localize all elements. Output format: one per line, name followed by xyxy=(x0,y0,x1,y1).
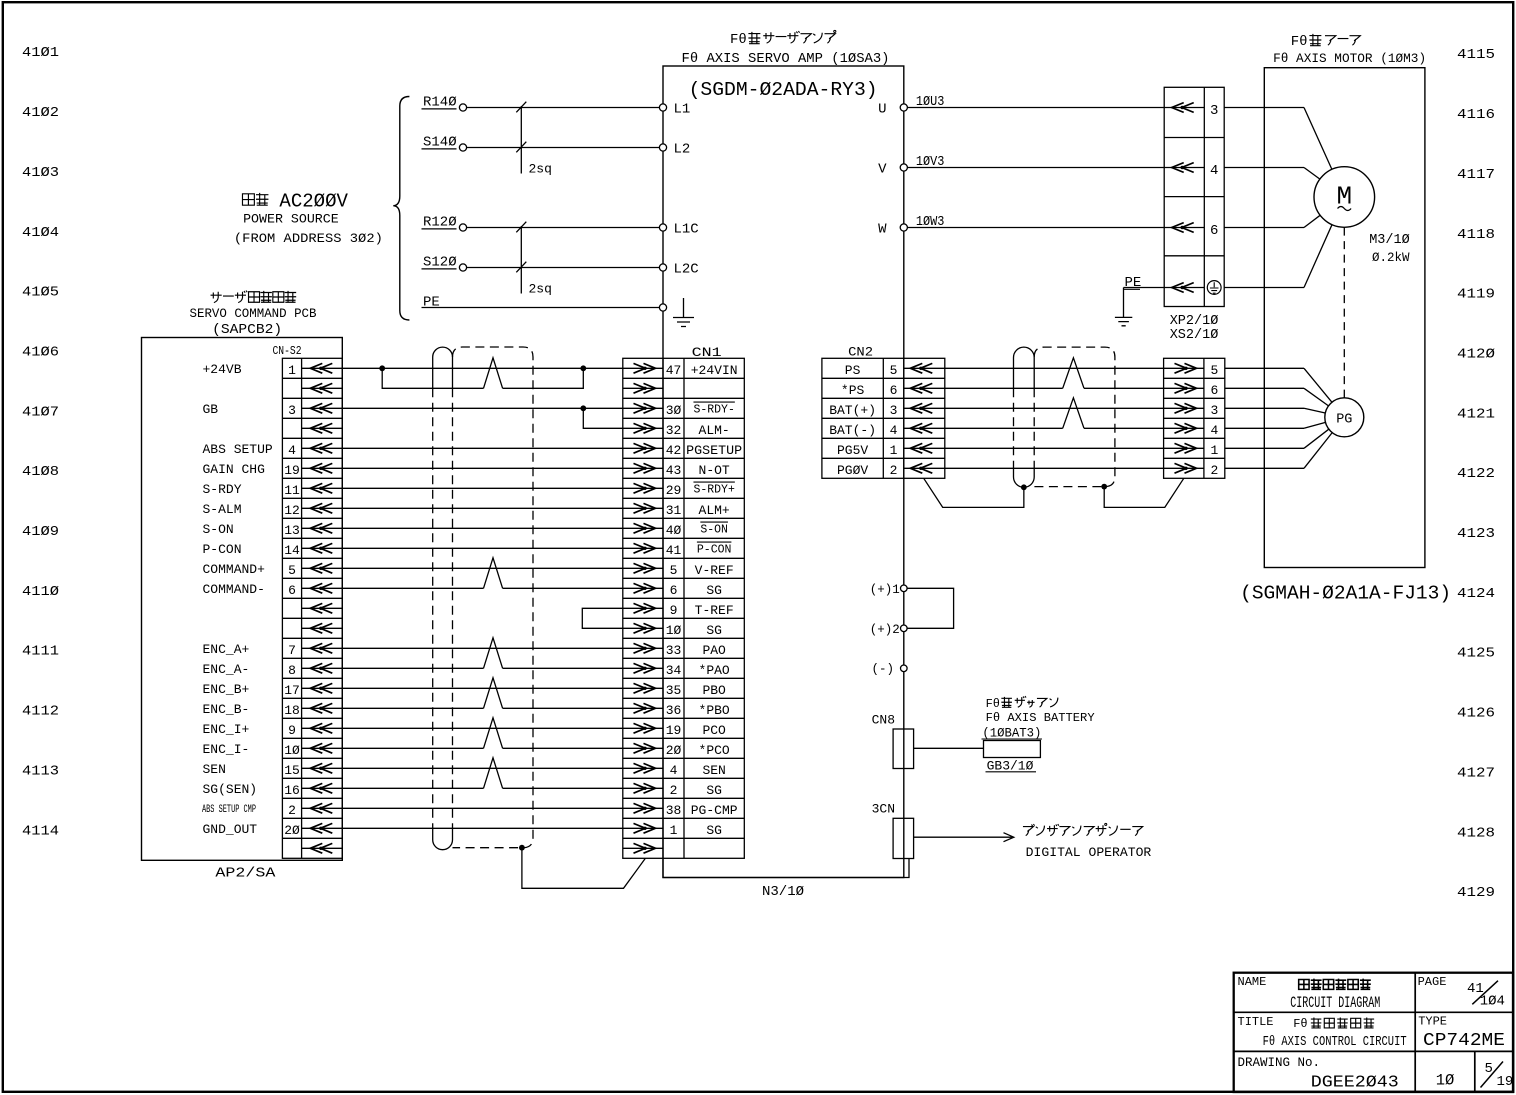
terminal L2 on servo amp xyxy=(659,144,666,151)
svg-text:PE: PE xyxy=(1125,275,1142,291)
svg-text:R12Ø: R12Ø xyxy=(423,215,457,231)
GB branch wire to ALM- with junction xyxy=(580,405,622,428)
svg-text:COMMAND+: COMMAND+ xyxy=(203,562,266,577)
ground symbol inside amp (PE) xyxy=(673,298,694,327)
arrow contact CN-S2 xyxy=(302,587,343,589)
arrow contact CN-S2 xyxy=(302,767,343,769)
svg-text:+24VIN: +24VIN xyxy=(691,363,738,378)
svg-text:S-ON: S-ON xyxy=(700,524,728,537)
svg-text:Ø.2kW: Ø.2kW xyxy=(1372,251,1410,265)
label サーボ指令基板 xyxy=(211,291,297,303)
pin 5 CN1 xyxy=(670,563,678,578)
pin 5 CN2 xyxy=(890,363,898,378)
connector XS2 encoder side xyxy=(1164,358,1225,478)
svg-text:12: 12 xyxy=(284,503,300,518)
pin 34 CN1 xyxy=(666,663,682,678)
twisted pair mark xyxy=(484,758,503,789)
svg-text:ENC_A-: ENC_A- xyxy=(203,662,250,677)
signal label BAT(-) (CN2) xyxy=(829,423,876,438)
svg-text:(SGMAH-Ø2A1A-FJ13): (SGMAH-Ø2A1A-FJ13) xyxy=(1240,583,1451,605)
wire CN2 row2 to XS2 xyxy=(945,407,1164,409)
terminal L1 on servo amp xyxy=(659,104,666,111)
pin 2 CN2 xyxy=(890,463,898,478)
net label R14Ø xyxy=(423,95,457,111)
pin 11 CN-S2 xyxy=(284,483,300,498)
signal label *PS (CN2) xyxy=(841,383,865,398)
svg-text:XP2/1Ø: XP2/1Ø xyxy=(1170,314,1219,329)
arrow contact CN-S2 xyxy=(302,427,343,429)
pin 3 CN2 xyxy=(890,403,898,418)
wire CN-S2 row20 to CN1 xyxy=(342,767,623,769)
svg-text:N3/1Ø: N3/1Ø xyxy=(762,884,804,900)
svg-text:4125: 4125 xyxy=(1457,646,1495,662)
pin 5 XS2 xyxy=(1210,363,1218,378)
svg-text:4122: 4122 xyxy=(1457,466,1495,482)
wire motor lead xyxy=(1304,225,1332,288)
wire CN2 row4 to XS2 xyxy=(945,447,1164,449)
pin 1 XS2 xyxy=(1210,443,1218,458)
title block label NAME xyxy=(1238,975,1267,989)
terminal (-) on amp xyxy=(871,662,907,676)
wire 1ØU3 XP2 to motor xyxy=(1224,107,1304,109)
twisted pair mark xyxy=(1063,398,1084,429)
servo command PCB box (SAPCB2) xyxy=(142,338,343,861)
svg-text:19: 19 xyxy=(666,723,682,738)
svg-text:Fθ AXIS MOTOR (1ØM3): Fθ AXIS MOTOR (1ØM3) xyxy=(1273,51,1426,66)
twisted pair mark xyxy=(484,718,503,749)
svg-text:9: 9 xyxy=(288,723,296,738)
svg-text:U: U xyxy=(878,102,886,118)
svg-text:PCO: PCO xyxy=(702,723,726,738)
signal label SG(SEN) (CN-S2) xyxy=(203,782,258,797)
arrow contact CN1 xyxy=(623,527,663,529)
arrow contact CN1 xyxy=(623,727,663,729)
svg-text:GND_OUT: GND_OUT xyxy=(203,822,258,837)
svg-text:CN-S2: CN-S2 xyxy=(273,344,302,358)
svg-text:9: 9 xyxy=(670,603,678,618)
arrow contact XS2 xyxy=(1164,387,1204,389)
pin 4 XP2 xyxy=(1210,163,1218,179)
svg-text:BAT(+): BAT(+) xyxy=(829,403,876,418)
svg-text:*PS: *PS xyxy=(841,383,865,398)
signal label PG-CMP (CN1) xyxy=(691,803,738,818)
svg-text:3: 3 xyxy=(1210,103,1218,119)
svg-text:CN2: CN2 xyxy=(848,345,873,360)
label CN8 xyxy=(872,713,895,728)
pin 1Ø CN-S2 xyxy=(284,743,300,758)
svg-text:PBO: PBO xyxy=(702,683,726,698)
svg-text:M3/1Ø: M3/1Ø xyxy=(1369,233,1410,248)
signal label ABS SETUP CMP (CN-S2) xyxy=(202,804,256,816)
svg-text:L1C: L1C xyxy=(674,222,699,238)
svg-text:41Ø4: 41Ø4 xyxy=(22,225,59,241)
svg-text:(FROM ADDRESS 3Ø2): (FROM ADDRESS 3Ø2) xyxy=(234,231,383,246)
pin 4 CN2 xyxy=(890,423,898,438)
arrow contact CN-S2 xyxy=(302,567,343,569)
signal label PGSETUP (CN1) xyxy=(686,443,742,458)
svg-text:3: 3 xyxy=(1210,403,1218,418)
wire CN-S2 row15 to CN1 xyxy=(342,667,483,669)
svg-text:PGSETUP: PGSETUP xyxy=(686,443,742,458)
left margin grid labels 4101-4114 xyxy=(22,45,59,839)
arrow contact XP2 xyxy=(1164,287,1204,289)
svg-text:5: 5 xyxy=(670,563,678,578)
shield wire CN2 side xyxy=(924,478,1024,507)
signal label PAO (CN1) xyxy=(702,643,726,658)
svg-text:*PAO: *PAO xyxy=(699,663,730,678)
wire XS2 to PG encoder xyxy=(1225,422,1326,428)
arrow contact CN1 xyxy=(623,647,663,649)
pin 19 CN-S2 xyxy=(284,463,300,478)
arrow contact CN-S2 xyxy=(302,727,343,729)
arrow contact CN1 xyxy=(623,407,663,409)
arrow contact CN1 xyxy=(623,707,663,709)
terminal circle R14Ø xyxy=(459,104,466,111)
svg-text:Fθ: Fθ xyxy=(986,697,1000,711)
wire CN-S2 row10 to CN1 xyxy=(342,567,623,569)
svg-text:T-REF: T-REF xyxy=(695,603,734,618)
wire CN2 row3 to XS2 xyxy=(945,427,1063,429)
pin PE earth symbol XP2 xyxy=(1207,281,1221,295)
signal label PGØV (CN2) xyxy=(837,463,868,478)
svg-text:2: 2 xyxy=(890,463,898,478)
svg-text:3CN: 3CN xyxy=(872,802,895,817)
svg-text:V: V xyxy=(878,162,887,178)
arrow contact CN-S2 xyxy=(302,447,343,449)
signal label *PCO (CN1) xyxy=(699,743,730,758)
pin 17 CN-S2 xyxy=(284,683,300,698)
arrow contact CN1 xyxy=(623,807,663,809)
signal label ENC_B- (CN-S2) xyxy=(203,702,250,717)
shield junction dot right (right cable) xyxy=(1101,484,1107,490)
svg-text:29: 29 xyxy=(666,483,682,498)
svg-text:411Ø: 411Ø xyxy=(22,584,59,600)
svg-text:32: 32 xyxy=(666,423,682,438)
title block label PAGE xyxy=(1418,975,1447,989)
svg-text:+24VB: +24VB xyxy=(203,362,242,377)
svg-text:13: 13 xyxy=(284,523,300,538)
svg-text:S-RDY-: S-RDY- xyxy=(693,404,734,417)
svg-text:1Ø: 1Ø xyxy=(284,743,300,758)
svg-text:GB: GB xyxy=(203,402,219,417)
svg-text:1: 1 xyxy=(288,363,296,378)
signal label ENC_A- (CN-S2) xyxy=(203,662,250,677)
title block label TYPE xyxy=(1418,1015,1447,1029)
net label PE at XP2 xyxy=(1124,275,1142,291)
svg-text:41Ø7: 41Ø7 xyxy=(22,404,59,420)
pin 29 CN1 xyxy=(666,483,682,498)
svg-text:PGØV: PGØV xyxy=(837,463,868,478)
wire S14Ø to servo amp xyxy=(467,147,659,149)
pin 14 CN-S2 xyxy=(284,543,300,558)
signal label PS (CN2) xyxy=(845,363,861,378)
shield drain wire to CN1 shell xyxy=(522,848,646,889)
title block label TITLE xyxy=(1238,1015,1274,1029)
label FΘ AXIS BATTERY xyxy=(986,711,1095,725)
arrow contact XP2 xyxy=(1164,107,1204,109)
svg-text:(SAPCB2): (SAPCB2) xyxy=(212,322,282,338)
svg-text:DIGITAL OPERATOR: DIGITAL OPERATOR xyxy=(1026,845,1152,860)
svg-text:BAT(-): BAT(-) xyxy=(829,423,876,438)
svg-text:XS2/1Ø: XS2/1Ø xyxy=(1170,328,1219,343)
title 電気回路線図 xyxy=(1299,979,1371,990)
svg-text:L2C: L2C xyxy=(674,262,699,278)
arrow contact CN1 xyxy=(623,747,663,749)
svg-text:4127: 4127 xyxy=(1457,765,1495,781)
pin 43 CN1 xyxy=(666,463,682,478)
title block xyxy=(1234,973,1513,1093)
connector 3CN box xyxy=(893,818,914,858)
signal label T-REF (CN1) xyxy=(695,603,734,618)
signal label ENC_I+ (CN-S2) xyxy=(203,722,250,737)
pin 31 CN1 xyxy=(666,503,682,518)
svg-text:41Ø5: 41Ø5 xyxy=(22,285,59,301)
wire joining (+)1 and (+)2 xyxy=(907,588,954,628)
svg-text:1: 1 xyxy=(670,823,678,838)
pin 9 CN-S2 xyxy=(288,723,296,738)
signal label S-RDY+ (CN1) xyxy=(693,482,735,496)
arrow contact XS2 xyxy=(1164,367,1204,369)
svg-text:SEN: SEN xyxy=(203,762,226,777)
page number 41/104 xyxy=(1467,981,1505,1010)
arrow contact CN1 xyxy=(623,427,663,429)
pin 42 CN1 xyxy=(666,443,682,458)
net label GB3/10 xyxy=(986,759,1037,774)
svg-text:AP2/SA: AP2/SA xyxy=(215,866,276,882)
arrow wire 3CN to digital operator xyxy=(914,833,1014,842)
signal label ENC_B+ (CN-S2) xyxy=(203,682,250,697)
arrow contact CN1 xyxy=(623,847,663,849)
arrow contact CN-S2 xyxy=(302,367,343,369)
signal label P-CON (CN-S2) xyxy=(203,542,242,557)
signal label COMMAND+ (CN-S2) xyxy=(203,562,266,577)
motor M1 circle xyxy=(1314,167,1375,228)
svg-text:(-): (-) xyxy=(871,662,894,676)
svg-text:R14Ø: R14Ø xyxy=(423,95,457,111)
svg-text:3: 3 xyxy=(288,403,296,418)
signal label ALM- (CN1) xyxy=(699,423,730,438)
pin 6 XP2 xyxy=(1210,223,1218,239)
signal label +24VIN (CN1) xyxy=(691,363,738,378)
svg-text:2sq: 2sq xyxy=(529,282,552,297)
signal label N-OT (CN1) xyxy=(699,463,730,478)
arrow contact CN-S2 xyxy=(302,527,343,529)
svg-text:41Ø2: 41Ø2 xyxy=(22,105,59,121)
pin 9 CN1 xyxy=(670,603,678,618)
arrow contact CN-S2 xyxy=(302,387,343,389)
wire S12Ø to servo amp xyxy=(467,267,659,269)
pin 12 CN-S2 xyxy=(284,503,300,518)
signal label ENC_I- (CN-S2) xyxy=(203,742,250,757)
sheet number 10 xyxy=(1436,1072,1455,1090)
svg-text:1Ø: 1Ø xyxy=(1436,1072,1455,1090)
pin 2 XS2 xyxy=(1210,463,1218,478)
svg-text:Fθ: Fθ xyxy=(1291,34,1308,50)
arrow contact CN1 xyxy=(623,387,663,389)
signal label GAIN CHG (CN-S2) xyxy=(203,462,265,477)
svg-text:47: 47 xyxy=(666,363,682,378)
signal label ENC_A+ (CN-S2) xyxy=(203,642,250,657)
svg-text:2sq: 2sq xyxy=(529,162,552,177)
arrow contact XS2 xyxy=(1164,427,1204,429)
terminal PE on servo amp xyxy=(659,304,666,311)
svg-text:41Ø6: 41Ø6 xyxy=(22,344,59,360)
svg-text:CN8: CN8 xyxy=(872,713,895,728)
label CN2 xyxy=(848,345,873,360)
wire gauge mark 2sq (bottom pair) xyxy=(516,222,552,297)
wire 1ØW3 XP2 to motor xyxy=(1224,227,1304,229)
svg-text:2: 2 xyxy=(288,803,296,818)
svg-text:*PCO: *PCO xyxy=(699,743,730,758)
power source brace xyxy=(393,97,409,321)
svg-text:2Ø: 2Ø xyxy=(284,823,300,838)
svg-text:TITLE: TITLE xyxy=(1238,1015,1274,1029)
power source label POWER SOURCE xyxy=(243,212,339,227)
wire CN-S2 row9 to CN1 xyxy=(342,547,623,549)
svg-text:ENC_I-: ENC_I- xyxy=(203,742,250,757)
net label PE xyxy=(423,295,440,311)
power source label 電源 AC200V xyxy=(242,193,268,205)
svg-text:ALM-: ALM- xyxy=(699,423,730,438)
cable jacket dashed outline (left cable) xyxy=(453,347,534,848)
shield wire XS2 side xyxy=(1104,478,1184,507)
wire CN-S2 row0 to CN1 xyxy=(342,367,623,369)
pin 32 CN1 xyxy=(666,423,682,438)
signal label SG (CN1) xyxy=(706,823,722,838)
pin 33 CN1 xyxy=(666,643,682,658)
svg-text:33: 33 xyxy=(666,643,682,658)
connector CN-S2 table xyxy=(282,358,342,858)
svg-text:6: 6 xyxy=(288,583,296,598)
pin 16 CN-S2 xyxy=(284,783,300,798)
svg-text:TYPE: TYPE xyxy=(1418,1015,1447,1029)
svg-text:19: 19 xyxy=(1497,1074,1514,1090)
svg-text:2Ø: 2Ø xyxy=(666,743,682,758)
signal label COMMAND- (CN-S2) xyxy=(203,582,265,597)
pin 4Ø CN1 xyxy=(666,523,682,538)
pin 6 XS2 xyxy=(1210,383,1218,398)
pin 36 CN1 xyxy=(666,703,682,718)
type CP742ME xyxy=(1423,1031,1505,1051)
svg-text:4119: 4119 xyxy=(1457,287,1495,303)
svg-text:SG(SEN): SG(SEN) xyxy=(203,782,258,797)
wire 1ØV3 XP2 to motor xyxy=(1224,167,1304,169)
label XP2/10 xyxy=(1170,314,1219,329)
pin 13 CN-S2 xyxy=(284,523,300,538)
wire XS2 to PG encoder xyxy=(1225,433,1332,469)
label M3/10 xyxy=(1369,233,1410,248)
net label 1ØV3 xyxy=(916,154,945,170)
svg-text:6: 6 xyxy=(890,383,898,398)
svg-text:ENC_B-: ENC_B- xyxy=(203,702,250,717)
terminal (+)1 on amp xyxy=(870,583,907,597)
signal label PCO (CN1) xyxy=(702,723,726,738)
T-REF/SG jumper bracket xyxy=(582,608,623,628)
svg-text:4Ø: 4Ø xyxy=(666,523,682,538)
battery GB3 box xyxy=(984,741,1041,758)
svg-text:ALM+: ALM+ xyxy=(699,503,730,518)
signal label PG5V (CN2) xyxy=(837,443,868,458)
twisted pair mark xyxy=(484,558,503,589)
motor box FΘ AXIS MOTOR (10M3) xyxy=(1264,68,1425,568)
label 3CN xyxy=(872,802,895,817)
pin 3Ø CN1 xyxy=(666,403,682,418)
svg-text:CN1: CN1 xyxy=(692,345,722,360)
wire CN-S2 row5 to CN1 xyxy=(342,467,623,469)
svg-text:4124: 4124 xyxy=(1457,586,1495,602)
svg-text:PAGE: PAGE xyxy=(1418,975,1447,989)
svg-text:41Ø3: 41Ø3 xyxy=(22,165,59,181)
pin 35 CN1 xyxy=(666,683,682,698)
arrow contact CN1 xyxy=(623,567,663,569)
pin 8 CN-S2 xyxy=(288,663,296,678)
svg-text:PAO: PAO xyxy=(702,643,726,658)
wire CN2 row5 to XS2 xyxy=(945,467,1164,469)
svg-text:4129: 4129 xyxy=(1457,885,1495,901)
wire PE XP2 to motor xyxy=(1224,287,1304,289)
svg-text:S14Ø: S14Ø xyxy=(423,135,457,151)
arrow contact CN1 xyxy=(623,667,663,669)
svg-text:S-ON: S-ON xyxy=(203,522,234,537)
cable shield (CN-S2 to CN1) drain pair xyxy=(433,347,453,850)
connector XP2/10-XS2/10 (power) xyxy=(1164,87,1224,306)
twisted pair mark xyxy=(484,638,503,669)
arrow contact CN-S2 xyxy=(302,607,343,609)
signal label PBO (CN1) xyxy=(702,683,726,698)
svg-text:ABS SETUP CMP: ABS SETUP CMP xyxy=(202,804,256,816)
svg-text:16: 16 xyxy=(284,783,300,798)
arrow contact CN-S2 xyxy=(302,647,343,649)
wire R14Ø to servo amp xyxy=(467,107,659,109)
arrow contact CN2 xyxy=(904,447,945,449)
arrow contact CN-S2 xyxy=(302,487,343,489)
title FΘ軸制御回路 xyxy=(1293,1017,1374,1031)
svg-text:1: 1 xyxy=(1210,443,1218,458)
svg-text:6: 6 xyxy=(1210,383,1218,398)
signal label SEN (CN-S2) xyxy=(203,762,226,777)
svg-text:412Ø: 412Ø xyxy=(1457,346,1495,362)
label ディジタルオペレータ xyxy=(1023,823,1143,835)
svg-text:43: 43 xyxy=(666,463,682,478)
svg-text:CP742ME: CP742ME xyxy=(1423,1031,1505,1051)
label DIGITAL OPERATOR xyxy=(1026,845,1152,860)
svg-text:(1ØBAT3): (1ØBAT3) xyxy=(982,727,1041,741)
power source label (FROM ADDRESS 302) xyxy=(234,231,383,246)
svg-text:Fθ AXIS CONTROL CIRCUIT: Fθ AXIS CONTROL CIRCUIT xyxy=(1263,1035,1407,1050)
signal label SG (CN1) xyxy=(706,623,722,638)
svg-text:W: W xyxy=(878,222,887,238)
wire XS2 to PG encoder xyxy=(1225,429,1329,448)
svg-text:36: 36 xyxy=(666,703,682,718)
svg-text:4: 4 xyxy=(1210,423,1218,438)
pin 38 CN1 xyxy=(666,803,682,818)
pin 6 CN2 xyxy=(890,383,898,398)
pin 4 CN1 xyxy=(670,763,678,778)
arrow contact CN-S2 xyxy=(302,827,343,829)
pin 18 CN-S2 xyxy=(284,703,300,718)
pin 4 CN-S2 xyxy=(288,443,296,458)
svg-text:V-REF: V-REF xyxy=(695,563,734,578)
wire CN-S2 row8 to CN1 xyxy=(342,527,623,529)
svg-text:SG: SG xyxy=(706,823,722,838)
svg-text:Fθ AXIS SERVO AMP (1ØSA3): Fθ AXIS SERVO AMP (1ØSA3) xyxy=(682,52,890,67)
svg-text:ABS SETUP: ABS SETUP xyxy=(203,442,273,457)
label SERVO COMMAND PCB xyxy=(190,307,317,321)
pin 6 CN-S2 xyxy=(288,583,296,598)
svg-text:41Ø8: 41Ø8 xyxy=(22,464,59,480)
svg-text:DGEE2Ø43: DGEE2Ø43 xyxy=(1311,1074,1399,1093)
pin 47 CN1 xyxy=(666,363,682,378)
